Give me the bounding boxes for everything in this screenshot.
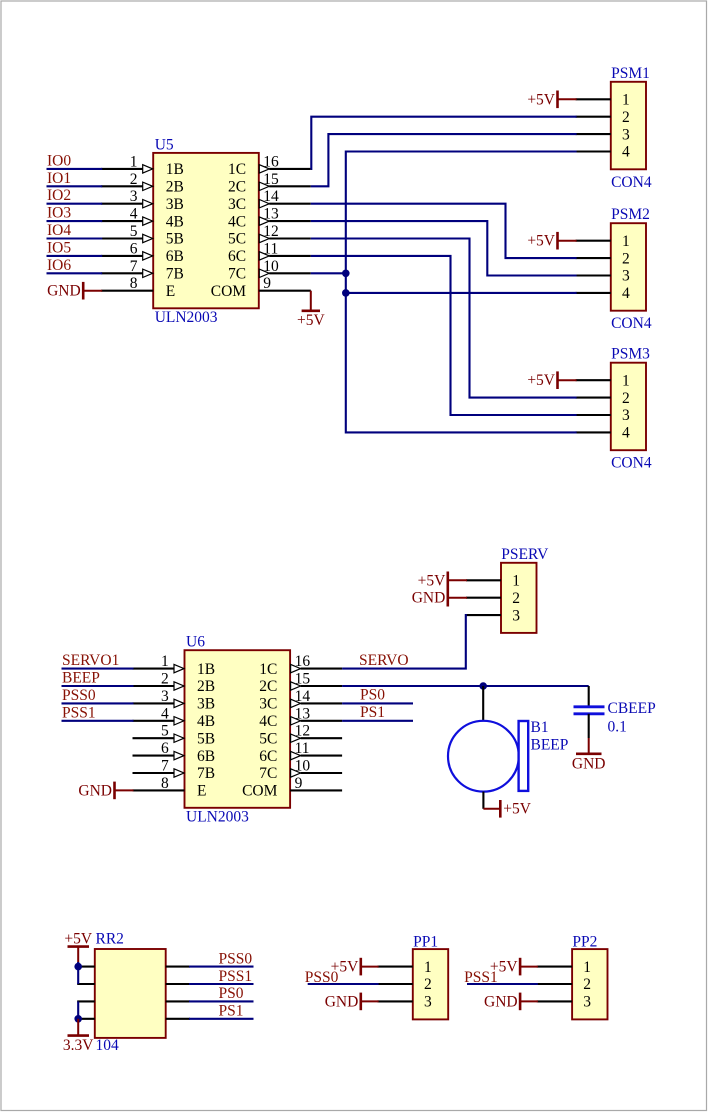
- svg-text:4: 4: [622, 285, 630, 302]
- svg-text:3: 3: [424, 994, 432, 1011]
- wire net PSS0 from RR2: [189, 966, 254, 968]
- U5 pin 15 (2C): [228, 171, 311, 196]
- svg-text:4: 4: [622, 144, 630, 161]
- svg-text:PSS1: PSS1: [219, 968, 253, 985]
- svg-text:2: 2: [622, 390, 630, 407]
- B1 designator label: [531, 719, 549, 736]
- wire common net to PSM2 pin4: [346, 292, 577, 294]
- wire U5 pin13 to PSM2 pin3: [311, 221, 577, 275]
- wire U5 pin10 to common net: [311, 272, 346, 274]
- U5 pin 10 (7C): [228, 258, 311, 283]
- svg-text:IO0: IO0: [47, 152, 71, 169]
- svg-text:PS1: PS1: [360, 704, 385, 721]
- U5 pin 16 (1C): [228, 153, 311, 178]
- svg-text:5: 5: [161, 723, 169, 740]
- junction at beeper drop: [479, 682, 487, 690]
- wire common net vertical PSM1/2/3 pin4: [346, 152, 577, 433]
- svg-text:5B: 5B: [166, 231, 184, 248]
- svg-text:3: 3: [583, 994, 591, 1011]
- svg-text:8: 8: [161, 775, 169, 792]
- wire net SERVO1: [62, 668, 134, 670]
- PSERV designator label: [501, 546, 549, 563]
- wire net IO4: [47, 237, 103, 239]
- U5 pin 6 (6B): [101, 240, 184, 265]
- svg-text:GND: GND: [412, 590, 446, 607]
- svg-text:1: 1: [583, 959, 591, 976]
- svg-text:IO6: IO6: [47, 257, 71, 274]
- svg-text:+5V: +5V: [297, 312, 325, 329]
- net label IO0: [47, 152, 71, 169]
- net label IO1: [47, 170, 71, 187]
- RR2 right pin 8: [166, 1018, 190, 1020]
- B1 value BEEP: [531, 737, 569, 754]
- U6 pin 8 (E): [133, 775, 207, 800]
- net label BEEP: [62, 670, 100, 687]
- svg-text:1: 1: [512, 573, 520, 590]
- wire to capacitor CBEEP: [588, 686, 590, 706]
- svg-text:IO3: IO3: [47, 205, 71, 222]
- PP1 pin 1: [377, 959, 431, 976]
- svg-text:3C: 3C: [228, 196, 246, 213]
- PP2 pin 1: [537, 959, 591, 976]
- PSERV pin 1: [466, 573, 520, 590]
- PSM3 pin 3: [576, 407, 630, 424]
- U5 pin 9 (COM): [211, 275, 311, 300]
- svg-text:IO5: IO5: [47, 239, 71, 256]
- PSM3 pin 2: [576, 390, 630, 407]
- PP2 pin 3: [537, 994, 592, 1011]
- connector PP1 body: [413, 949, 448, 1019]
- ground port GND below CBEEP: [572, 738, 606, 773]
- svg-text:PSS1: PSS1: [464, 969, 498, 986]
- svg-text:+5V: +5V: [527, 91, 555, 108]
- CBEEP value 0.1: [608, 719, 627, 736]
- svg-text:ULN2003: ULN2003: [186, 809, 249, 826]
- net label PSS0: [219, 950, 253, 967]
- junction at U5 pin10 row: [342, 270, 350, 278]
- U6 pin 16 (1C): [259, 653, 342, 678]
- svg-text:7: 7: [130, 258, 138, 275]
- wire junction down to buzzer B1: [482, 686, 484, 721]
- svg-text:PSS1: PSS1: [62, 704, 96, 721]
- svg-text:COM: COM: [211, 283, 247, 300]
- U6 pin 1 (1B): [133, 653, 216, 678]
- U6 pin 5 (5B): [133, 723, 216, 748]
- connector PP2 body: [572, 949, 607, 1019]
- svg-text:104: 104: [96, 1037, 120, 1054]
- svg-text:1: 1: [130, 153, 138, 170]
- svg-text:8: 8: [130, 275, 138, 292]
- U5 pin 2 (2B): [101, 171, 184, 196]
- svg-text:1: 1: [622, 233, 630, 250]
- U6 pin 6 (6B): [133, 740, 216, 765]
- net label IO6: [47, 257, 71, 274]
- U6 pin 3 (3B): [133, 688, 216, 713]
- svg-text:2B: 2B: [197, 678, 215, 695]
- svg-text:2: 2: [512, 590, 520, 607]
- svg-text:3B: 3B: [197, 696, 215, 713]
- RR2 right pin 7: [166, 1000, 190, 1002]
- svg-text:CON4: CON4: [611, 174, 652, 191]
- connector PSM3 body: [611, 363, 646, 451]
- wire U5 pin15 to PSM1 pin3: [311, 134, 577, 186]
- U6 pin 14 (3C): [259, 688, 342, 713]
- wire net PSS1 to PP2 pin 2: [467, 983, 538, 985]
- net label IO5: [47, 239, 71, 256]
- RR2 value 104: [96, 1037, 120, 1054]
- svg-text:1B: 1B: [197, 661, 215, 678]
- PP2 designator label: [572, 934, 597, 951]
- svg-text:GND: GND: [78, 782, 112, 799]
- wire net BEEP: [62, 685, 134, 687]
- ground port GND at PP1 pin 3: [325, 993, 379, 1011]
- svg-text:1: 1: [161, 653, 169, 670]
- net label SERVO: [359, 652, 409, 669]
- svg-text:PSERV: PSERV: [501, 546, 549, 563]
- U5 designator label: [155, 136, 174, 153]
- U6 pin 9 (COM): [242, 775, 342, 800]
- PSM1 pin 3: [576, 126, 630, 143]
- svg-text:PSS0: PSS0: [62, 687, 96, 704]
- svg-text:3.3V: 3.3V: [63, 1037, 94, 1054]
- net label PSS1: [62, 704, 96, 721]
- svg-text:ULN2003: ULN2003: [155, 309, 218, 326]
- U6 pin 2 (2B): [133, 671, 216, 696]
- svg-text:PS1: PS1: [219, 1003, 244, 1020]
- svg-text:COM: COM: [242, 783, 278, 800]
- RR2 right pin 6: [166, 983, 190, 985]
- PSM2 pin 1: [576, 233, 630, 250]
- svg-text:4B: 4B: [166, 213, 184, 230]
- wire BEEP net U6 pin15 horizontal: [342, 685, 589, 687]
- svg-text:6: 6: [130, 240, 138, 257]
- wire buzzer bottom: [482, 792, 484, 809]
- U5 pin 13 (4C): [228, 206, 311, 231]
- power port +5V at PP2 pin 1: [490, 958, 538, 976]
- svg-text:1C: 1C: [228, 161, 246, 178]
- svg-text:15: 15: [295, 671, 311, 688]
- svg-text:2: 2: [161, 671, 169, 688]
- U5 pin 11 (6C): [228, 240, 311, 265]
- svg-text:4: 4: [130, 206, 138, 223]
- PSM2 pin 3: [576, 268, 630, 285]
- svg-text:13: 13: [263, 206, 279, 223]
- PSM3 designator label: [611, 346, 650, 363]
- svg-text:PSS0: PSS0: [219, 950, 253, 967]
- connector PSERV body: [501, 563, 537, 633]
- wire net IO5: [47, 255, 103, 257]
- svg-text:13: 13: [295, 705, 311, 722]
- PP2 pin 2: [537, 976, 591, 993]
- PSERV pin 3: [466, 607, 520, 624]
- wire U5 pin11 to PSM3 pin3: [311, 256, 577, 415]
- U6 pin 10 (7C): [259, 758, 342, 783]
- U5 pin 3 (3B): [101, 188, 184, 213]
- svg-text:3: 3: [130, 188, 138, 205]
- net label PSS1: [464, 969, 498, 986]
- junction at PSM2 pin4 row: [342, 289, 350, 297]
- PSM1 pin 2: [576, 109, 630, 126]
- PSM2 value CON4: [611, 315, 652, 332]
- svg-text:PS0: PS0: [219, 985, 244, 1002]
- svg-text:SERVO1: SERVO1: [62, 652, 119, 669]
- svg-text:7B: 7B: [166, 266, 184, 283]
- PSM1 pin 1: [576, 92, 630, 109]
- svg-text:CBEEP: CBEEP: [608, 700, 656, 717]
- svg-text:E: E: [166, 283, 175, 300]
- wire net IO0: [47, 168, 103, 170]
- svg-text:+5V: +5V: [64, 931, 92, 948]
- wire net PS1 from U6 pin13: [342, 720, 413, 722]
- connector PSM1 body: [611, 82, 646, 170]
- PSM3 pin 4: [576, 425, 630, 442]
- svg-text:11: 11: [263, 240, 278, 257]
- svg-text:1C: 1C: [259, 661, 277, 678]
- RR2 left pin 4: [77, 1018, 95, 1020]
- net label PSS0: [62, 687, 96, 704]
- svg-text:IO4: IO4: [47, 222, 71, 239]
- svg-text:6C: 6C: [259, 748, 277, 765]
- svg-text:3: 3: [622, 268, 630, 285]
- svg-text:3: 3: [161, 688, 169, 705]
- wire net PSS0: [62, 702, 134, 704]
- svg-text:GND: GND: [572, 756, 606, 773]
- PSM2 designator label: [611, 206, 650, 223]
- U6 pin 7 (7B): [133, 758, 216, 783]
- junction 3.3V rail at RR2 pin4: [74, 1015, 82, 1023]
- power port +5V at PP1 pin 1: [331, 958, 379, 976]
- connector PSM2 body: [611, 223, 646, 311]
- U5 pin 14 (3C): [228, 188, 311, 213]
- svg-text:5B: 5B: [197, 730, 215, 747]
- svg-text:1: 1: [424, 959, 432, 976]
- svg-text:15: 15: [263, 171, 279, 188]
- net label PS1: [219, 1003, 244, 1020]
- svg-text:4C: 4C: [228, 213, 246, 230]
- wire SERVO net U6 pin16 to PSERV pin 3: [342, 615, 467, 669]
- PSM1 pin 4: [576, 144, 630, 161]
- wire net PSS0 to PP1 pin 2: [308, 983, 379, 985]
- svg-text:3: 3: [512, 607, 520, 624]
- svg-text:2C: 2C: [259, 678, 277, 695]
- power port +5V at U5 pin 9: [297, 291, 325, 329]
- svg-text:3C: 3C: [259, 696, 277, 713]
- svg-text:7C: 7C: [228, 266, 246, 283]
- capacitor CBEEP plates: [574, 707, 605, 714]
- net label SERVO1: [62, 652, 119, 669]
- svg-text:CON4: CON4: [611, 315, 652, 332]
- svg-text:3B: 3B: [166, 196, 184, 213]
- svg-text:10: 10: [263, 258, 279, 275]
- svg-text:7B: 7B: [197, 765, 215, 782]
- net label IO2: [47, 187, 71, 204]
- svg-text:2: 2: [424, 976, 432, 993]
- svg-text:10: 10: [295, 758, 311, 775]
- svg-text:RR2: RR2: [96, 931, 124, 948]
- power port 3.3V below RR2: [63, 1019, 94, 1054]
- power port +5V at PSM1 pin 1: [527, 91, 576, 109]
- buzzer B1 circle: [448, 721, 519, 792]
- RR2 left pin 3: [77, 1000, 95, 1002]
- RR2 right pin 5: [166, 966, 190, 968]
- svg-text:0.1: 0.1: [608, 719, 627, 736]
- svg-text:9: 9: [295, 775, 303, 792]
- svg-text:E: E: [197, 783, 206, 800]
- svg-text:BEEP: BEEP: [531, 737, 569, 754]
- svg-text:16: 16: [263, 153, 279, 170]
- wire net IO3: [47, 220, 103, 222]
- U5 pin 1 (1B): [101, 153, 184, 178]
- svg-text:PSM2: PSM2: [611, 206, 650, 223]
- svg-text:3: 3: [622, 126, 630, 143]
- svg-text:2: 2: [583, 976, 591, 993]
- svg-text:PSS0: PSS0: [305, 969, 339, 986]
- svg-text:11: 11: [295, 740, 310, 757]
- PSM2 pin 4: [576, 285, 630, 302]
- U6 designator label: [186, 634, 205, 651]
- wire net PS0 from RR2: [189, 1000, 254, 1002]
- wire 3.3V rail RR2 pins 3-4: [77, 1001, 79, 1018]
- svg-text:+5V: +5V: [503, 801, 531, 818]
- svg-text:U5: U5: [155, 136, 174, 153]
- PP1 designator label: [413, 934, 438, 951]
- net label PSS1: [219, 968, 253, 985]
- wire net IO6: [47, 272, 103, 274]
- svg-text:14: 14: [263, 188, 279, 205]
- svg-text:12: 12: [263, 223, 279, 240]
- RR2 designator label: [96, 931, 124, 948]
- IC U6 body: [185, 650, 291, 808]
- svg-text:9: 9: [263, 275, 271, 292]
- svg-text:4: 4: [622, 425, 630, 442]
- svg-text:BEEP: BEEP: [62, 670, 100, 687]
- U5 pin 12 (5C): [228, 223, 311, 248]
- svg-text:IO1: IO1: [47, 170, 71, 187]
- svg-text:PS0: PS0: [360, 687, 385, 704]
- wire net PSS1 from RR2: [189, 983, 254, 985]
- svg-text:1B: 1B: [166, 161, 184, 178]
- ground port GND at PP2 pin 3: [484, 993, 538, 1011]
- U6 pin 15 (2C): [259, 671, 342, 696]
- svg-text:GND: GND: [484, 993, 518, 1010]
- power port +5V above RR2: [64, 931, 92, 963]
- net label PS0: [219, 985, 244, 1002]
- ground port GND at U6 pin 8: [78, 782, 133, 800]
- svg-text:1: 1: [622, 372, 630, 389]
- svg-text:5C: 5C: [228, 231, 246, 248]
- svg-text:1: 1: [622, 92, 630, 109]
- PP1 pin 3: [377, 994, 432, 1011]
- PSM3 pin 1: [576, 372, 630, 389]
- U6 pin 13 (4C): [259, 705, 342, 730]
- svg-text:2: 2: [130, 171, 138, 188]
- svg-text:PSM3: PSM3: [611, 346, 650, 363]
- svg-text:4B: 4B: [197, 713, 215, 730]
- svg-text:PP2: PP2: [572, 934, 597, 951]
- buzzer B1 piezo plate: [519, 721, 529, 791]
- wire net IO2: [47, 203, 103, 205]
- wire +5V rail to RR2 pins 1-2: [77, 962, 79, 984]
- svg-text:6B: 6B: [197, 748, 215, 765]
- svg-text:4: 4: [161, 705, 169, 722]
- power port +5V at PSM2 pin 1: [527, 232, 576, 250]
- svg-text:PSM1: PSM1: [611, 65, 650, 82]
- U5 pin 7 (7B): [101, 258, 184, 283]
- PSERV pin 2: [466, 590, 520, 607]
- PSM1 designator label: [611, 65, 650, 82]
- svg-text:6C: 6C: [228, 248, 246, 265]
- U6 value ULN2003: [186, 809, 249, 826]
- U6 pin 11 (6C): [259, 740, 342, 765]
- svg-text:IO2: IO2: [47, 187, 71, 204]
- PSM1 value CON4: [611, 174, 652, 191]
- RR2 left pin 2: [77, 983, 95, 985]
- svg-text:7C: 7C: [259, 765, 277, 782]
- svg-text:SERVO: SERVO: [359, 652, 409, 669]
- svg-text:7: 7: [161, 758, 169, 775]
- wire U5 pin14 to PSM2 pin2: [311, 204, 577, 258]
- svg-text:5: 5: [130, 223, 138, 240]
- svg-text:16: 16: [295, 653, 311, 670]
- power port +5V at PSM3 pin 1: [527, 371, 576, 389]
- U6 pin 12 (5C): [259, 723, 342, 748]
- svg-text:PP1: PP1: [413, 934, 438, 951]
- junction +5V rail at RR2 pin1: [74, 963, 82, 971]
- U5 pin 4 (4B): [101, 206, 184, 231]
- svg-text:6B: 6B: [166, 248, 184, 265]
- svg-text:2C: 2C: [228, 179, 246, 196]
- PP1 pin 2: [377, 976, 431, 993]
- wire net PSS1: [62, 720, 134, 722]
- power port +5V at buzzer bottom: [483, 800, 531, 818]
- svg-text:+5V: +5V: [527, 372, 555, 389]
- svg-text:B1: B1: [531, 719, 549, 736]
- net label PS1: [360, 704, 385, 721]
- U5 pin 5 (5B): [101, 223, 184, 248]
- net label IO3: [47, 205, 71, 222]
- svg-text:14: 14: [295, 688, 311, 705]
- PSM3 value CON4: [611, 455, 652, 472]
- U5 pin 8 (E): [101, 275, 175, 300]
- CBEEP designator label: [608, 700, 656, 717]
- power port +5V at PSERV pin 1: [418, 572, 467, 590]
- wire U5 pin16 to PSM1 pin2: [311, 117, 577, 169]
- resistor network RR2 body: [95, 949, 166, 1038]
- svg-text:4C: 4C: [259, 713, 277, 730]
- net label IO4: [47, 222, 71, 239]
- svg-text:6: 6: [161, 740, 169, 757]
- svg-text:2: 2: [622, 250, 630, 267]
- net label PS0: [360, 687, 385, 704]
- svg-text:+5V: +5V: [418, 572, 446, 589]
- RR2 left pin 1: [77, 966, 95, 968]
- wire net PS0 from U6 pin14: [342, 702, 413, 704]
- PSM2 pin 2: [576, 250, 630, 267]
- net label PSS0: [305, 969, 339, 986]
- svg-text:GND: GND: [325, 993, 359, 1010]
- U5 value ULN2003: [155, 309, 218, 326]
- wire net PS1 from RR2: [189, 1018, 254, 1020]
- svg-text:U6: U6: [186, 634, 205, 651]
- wire U5 pin12 to PSM3 pin2: [311, 239, 577, 398]
- wire net IO1: [47, 185, 103, 187]
- ground port GND at PSERV pin 2: [412, 589, 467, 607]
- svg-text:3: 3: [622, 407, 630, 424]
- svg-text:2B: 2B: [166, 179, 184, 196]
- svg-text:+5V: +5V: [527, 233, 555, 250]
- svg-text:12: 12: [295, 723, 311, 740]
- svg-text:GND: GND: [47, 283, 81, 300]
